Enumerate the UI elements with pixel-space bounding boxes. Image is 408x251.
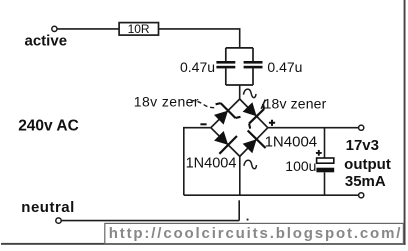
- plus sign at bridge right: [269, 120, 275, 126]
- svg-text:18v zener: 18v zener: [264, 96, 327, 112]
- leader line right zener label: [261, 100, 265, 109]
- plus sign at C3: [316, 150, 322, 156]
- bridge edge bottom-left: [211, 128, 240, 157]
- resistor 10R: [119, 23, 158, 35]
- wire vertical down to capacitor bank: [239, 28, 241, 48]
- capacitor C1 top lead: [225, 48, 227, 61]
- capacitor C1 bottom lead: [225, 68, 227, 85]
- wire bridge bottom vertex down to bus: [239, 156, 241, 195]
- node neutral terminal: [56, 218, 61, 223]
- svg-text:1N4004: 1N4004: [186, 155, 237, 171]
- svg-text:0.47u: 0.47u: [180, 59, 215, 75]
- svg-text:http://coolcircuits.blogspot.c: http://coolcircuits.blogspot.com/: [109, 225, 403, 242]
- node active terminal: [52, 26, 57, 31]
- svg-text:240v AC: 240v AC: [18, 117, 79, 134]
- zener diode D1 18v (top-left, points to top vertex): [210, 98, 241, 129]
- capacitor C3 100u top lead: [324, 128, 326, 158]
- capacitor bank top bar: [226, 47, 253, 49]
- node output - terminal: [359, 193, 364, 198]
- svg-text:neutral: neutral: [21, 199, 75, 216]
- capacitor C2 bottom lead: [252, 68, 254, 85]
- diode D4 1N4004 (bottom-right, points to right vertex): [239, 130, 266, 157]
- wire active to R1: [57, 28, 119, 30]
- capacitor C3 100u top plate: [317, 158, 334, 163]
- node output + terminal: [359, 125, 364, 130]
- capacitor bank bottom bar: [226, 84, 253, 86]
- wire neutral riser (crosses bus with gap): [238, 200, 240, 220]
- svg-text:10R: 10R: [128, 22, 150, 36]
- wire bridge left vertex to left corner: [184, 127, 211, 129]
- bridge edge top-right: [240, 99, 268, 128]
- bridge edge top-left: [211, 99, 240, 128]
- capacitor C2 0.47u plates: [244, 61, 263, 64]
- svg-text:active: active: [25, 33, 68, 50]
- svg-text:18v zener: 18v zener: [134, 93, 199, 109]
- watermark box: [105, 223, 404, 243]
- wire left vertical down: [183, 127, 185, 195]
- bridge edge bottom-right: [240, 128, 268, 157]
- wire bridge right vertex to output: [268, 127, 359, 129]
- wire bottom bus: [184, 194, 359, 196]
- capacitor C3 100u bottom lead: [324, 172, 326, 195]
- svg-text:17v3: 17v3: [346, 137, 379, 154]
- minus sign at bridge left: [200, 123, 206, 125]
- bottom shadow rule: [1, 243, 406, 245]
- wire neutral: [61, 220, 239, 222]
- wire R1 to top corner: [159, 28, 240, 30]
- svg-text:1N4004: 1N4004: [265, 134, 318, 151]
- wire capacitor bank to bridge top vertex: [239, 85, 241, 100]
- capacitor C2 top lead: [252, 48, 254, 61]
- svg-text:output: output: [344, 156, 391, 173]
- zener diode D2 18v (top-right, points to right vertex): [238, 98, 269, 129]
- leader line left zener label: [191, 101, 215, 108]
- svg-text:35mA: 35mA: [345, 173, 386, 190]
- diode D3 1N4004 (bottom-left, points to bottom vertex): [210, 127, 237, 154]
- capacitor C1 0.47u plates: [216, 61, 235, 64]
- svg-text:100u: 100u: [285, 158, 316, 174]
- AC squiggle above bridge: [243, 89, 256, 98]
- right shadow rule: [404, 0, 406, 245]
- stray dot: [247, 219, 249, 221]
- AC squiggle below bridge: [244, 160, 257, 169]
- svg-text:0.47u: 0.47u: [267, 59, 302, 75]
- capacitor C3 100u bottom plate: [316, 168, 334, 173]
